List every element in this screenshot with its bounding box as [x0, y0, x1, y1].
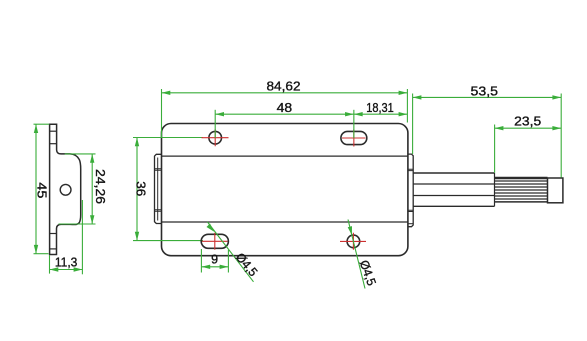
left tab division lower — [155, 210, 162, 211]
dim 11,3 arrow right — [74, 267, 83, 271]
threaded section — [495, 178, 548, 202]
side view tab line bottom2 — [50, 248, 57, 250]
dim 84,62 line — [162, 92, 408, 94]
center line row top — [133, 137, 203, 139]
dim 18,31 arrow right — [399, 112, 408, 116]
svg-text:23,5: 23,5 — [514, 115, 541, 129]
svg-text:24,26: 24,26 — [93, 169, 107, 204]
right tab division lower — [408, 210, 413, 211]
body inner line bottom — [162, 221, 408, 223]
left mounting tab — [155, 154, 162, 223]
crosshair BL — [202, 233, 228, 250]
shaft step face — [494, 173, 496, 206]
side view bracket outline — [50, 124, 81, 254]
shaft top line — [413, 172, 494, 174]
leader BL — [208, 222, 254, 282]
dim 23,5 line — [495, 127, 562, 129]
dim 18,31 line — [354, 113, 408, 115]
right tab division upper — [408, 169, 413, 170]
dim 23,5 arrow left — [495, 126, 504, 130]
dim 45 extension bottom — [34, 253, 49, 255]
slot top-right — [341, 131, 367, 144]
dim 18,31 arrow left — [354, 112, 363, 116]
svg-text:9: 9 — [211, 253, 218, 267]
hole top-left — [209, 131, 222, 144]
svg-text:11,3: 11,3 — [55, 256, 78, 270]
dim 84,62 ext right — [406, 89, 408, 123]
plunger end cap — [548, 178, 563, 203]
svg-text:48: 48 — [277, 101, 293, 115]
dim 24,26 extension top — [65, 153, 96, 155]
crosshair BR — [340, 233, 366, 250]
svg-text:84,62: 84,62 — [267, 80, 301, 94]
left tab division upper — [155, 169, 162, 170]
dim 9 arrow left — [201, 265, 210, 269]
slot bottom-left — [201, 234, 228, 248]
dim 53,5 ext left — [412, 94, 414, 155]
shaft bottom line — [413, 205, 494, 207]
dim 53,5 arrow left — [413, 95, 422, 99]
ext line hole TL vertical — [214, 110, 216, 138]
leader BR — [348, 220, 365, 289]
svg-text:45: 45 — [34, 182, 48, 198]
dim 53,5 line — [413, 96, 562, 98]
side view tab line top2 — [50, 143, 57, 145]
center line row bottom — [133, 240, 203, 242]
dim 45 line — [35, 124, 37, 254]
side view hole — [60, 184, 71, 195]
dim 11,3 extension left — [49, 255, 51, 273]
dim 84,62 arrow left — [162, 91, 171, 95]
hole bottom-right — [347, 235, 360, 248]
dim 9 line — [201, 266, 228, 268]
dim 24,26 extension bottom — [59, 223, 96, 225]
dim 9 arrow right — [220, 265, 229, 269]
dim 45 arrow down — [34, 245, 38, 254]
body outline — [162, 124, 408, 256]
crosshair TR — [342, 130, 366, 147]
dim 9 ext right — [227, 250, 229, 273]
svg-text:53,5: 53,5 — [471, 84, 499, 98]
dim 11,3 line — [50, 269, 83, 271]
dim 36 arrow up — [135, 138, 139, 147]
svg-text:36: 36 — [134, 181, 148, 196]
shaft inner line 2 — [413, 195, 494, 197]
dim 24,26 arrow down — [90, 215, 94, 224]
leader BL arrow — [207, 224, 215, 232]
body inner line top — [162, 155, 408, 157]
right mounting tab — [408, 154, 413, 227]
dim 23,5 ext left — [494, 125, 496, 173]
leader BR arrow — [348, 226, 352, 235]
dim 84,62 ext left — [161, 89, 163, 137]
dim 48 arrow right — [345, 112, 354, 116]
side view tab line bottom1 — [50, 233, 57, 235]
dim 11,3 arrow left — [50, 267, 59, 271]
dim 84,62 arrow right — [399, 91, 408, 95]
dim 24,26 arrow up — [90, 154, 94, 163]
left tab inner vertical — [157, 158, 159, 221]
right tab division bottom — [408, 223, 413, 225]
dim 23,5 arrow right — [552, 126, 561, 130]
dim 9 ext left — [200, 249, 202, 273]
dim 36 arrow down — [135, 232, 139, 241]
dim 36 line — [136, 138, 138, 241]
dim 45 arrow up — [34, 124, 38, 133]
side view tab line top1 — [50, 130, 57, 132]
dim 45 extension top — [34, 123, 50, 125]
dim 53,5 ext right — [560, 94, 562, 178]
dim 24,26 line — [91, 154, 93, 224]
dim 48 arrow left — [215, 112, 224, 116]
shaft inner line 1 — [413, 183, 494, 185]
ext line slot TR vertical — [353, 110, 355, 139]
svg-text:18,31: 18,31 — [366, 101, 394, 115]
dim 53,5 arrow right — [552, 95, 561, 99]
crosshair TL — [202, 129, 229, 146]
dim 48 line — [215, 113, 354, 115]
dim 11,3 extension right — [81, 200, 83, 274]
